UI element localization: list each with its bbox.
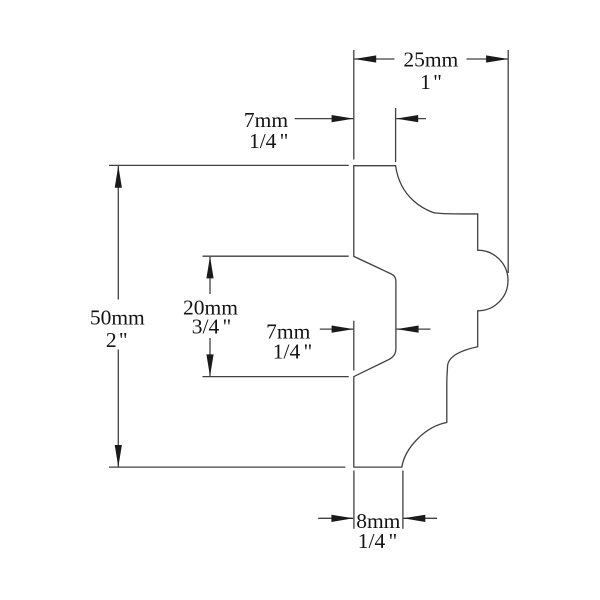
dimension line 50mm	[117, 166, 119, 300]
arrowhead 25mm right	[486, 55, 508, 62]
arrowhead 50mm down	[115, 445, 122, 467]
dimension line 25mm	[354, 58, 395, 60]
arrowhead 50mm up	[115, 166, 122, 188]
extension line 50mm bottom	[109, 466, 345, 468]
extension line 8mm left	[353, 471, 355, 529]
extension line 50mm top	[109, 164, 349, 166]
dimension line 20mm	[209, 257, 211, 294]
arrowhead 7mm middle pointing left	[397, 326, 419, 333]
svg-text:50mm: 50mm	[90, 306, 145, 330]
svg-text:1/4": 1/4"	[358, 529, 397, 553]
arrowhead 25mm left	[354, 55, 376, 62]
svg-text:2": 2"	[106, 328, 128, 352]
arrowhead 8mm pointing right	[331, 515, 353, 522]
dimension line 7mm middle	[320, 328, 354, 330]
extension line 25mm right	[507, 50, 509, 273]
arrowhead 7mm top pointing right	[332, 115, 354, 122]
extension line 7mm middle	[353, 321, 355, 371]
moulding profile outline	[354, 166, 508, 467]
svg-text:1": 1"	[420, 70, 442, 94]
extension line 20mm top	[203, 255, 349, 257]
svg-text:1/4": 1/4"	[249, 129, 288, 153]
arrowhead 7mm middle pointing right	[332, 326, 354, 333]
dimension line 8mm	[318, 517, 353, 519]
extension line 20mm bottom	[203, 376, 349, 378]
dimension line 7mm top	[295, 118, 354, 120]
svg-text:25mm: 25mm	[403, 48, 458, 72]
extension line 8mm right	[402, 471, 404, 529]
arrowhead 20mm up	[206, 256, 213, 278]
svg-text:3/4": 3/4"	[192, 315, 231, 339]
extension line 25mm left	[353, 50, 355, 160]
svg-text:1/4": 1/4"	[273, 340, 312, 364]
arrowhead 20mm down	[206, 354, 213, 376]
arrowhead 8mm pointing left	[403, 515, 425, 522]
arrowhead 7mm top pointing left	[396, 115, 418, 122]
extension line 7mm top right	[395, 108, 397, 162]
